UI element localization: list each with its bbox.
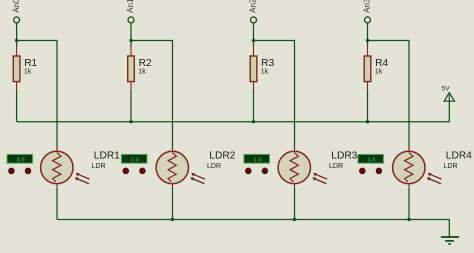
LDR4 adjust buttons	[359, 168, 381, 174]
node bus junction	[366, 120, 369, 123]
LDR3 value display "1.0"	[244, 154, 270, 163]
LDR2 adjust buttons	[123, 168, 145, 174]
wire	[17, 41, 57, 148]
node bus junction	[129, 120, 132, 123]
wire	[368, 41, 410, 148]
terminal An0	[12, 0, 21, 23]
resistor R3	[250, 46, 274, 91]
svg-text:R2: R2	[139, 58, 152, 69]
svg-text:LDR4: LDR4	[446, 151, 472, 162]
svg-text:1.0: 1.0	[131, 157, 139, 163]
wire	[408, 188, 410, 220]
wire	[172, 188, 174, 220]
svg-text:1k: 1k	[24, 69, 32, 76]
LDR1 (photoresistor)	[41, 147, 121, 188]
resistor R2	[128, 46, 152, 91]
wire	[16, 91, 18, 122]
svg-text:1.0: 1.0	[368, 157, 376, 163]
wire	[253, 41, 255, 47]
node ground bus junction	[293, 218, 296, 221]
resistor R1	[13, 46, 37, 91]
wire	[16, 23, 18, 41]
LDR1 value display "1.0"	[7, 154, 33, 163]
terminal An3	[363, 0, 372, 23]
node junction An2	[252, 39, 255, 42]
wire	[294, 188, 296, 220]
node ground bus junction	[171, 218, 174, 221]
svg-text:LDR: LDR	[329, 163, 343, 170]
node ground bus junction	[407, 218, 410, 221]
node bus junction	[252, 120, 255, 123]
resistor R4	[364, 46, 388, 91]
LDR1 adjust buttons	[9, 168, 31, 174]
svg-text:An1: An1	[126, 0, 135, 13]
svg-text:LDR1: LDR1	[94, 151, 120, 162]
terminal An1	[126, 0, 135, 23]
LDR2 (photoresistor)	[156, 147, 236, 188]
svg-text:1.0: 1.0	[17, 157, 25, 163]
terminal An2	[249, 0, 258, 23]
wire	[254, 41, 295, 148]
svg-text:5V: 5V	[442, 85, 451, 92]
LDR3 (photoresistor)	[278, 147, 358, 188]
svg-text:LDR: LDR	[444, 163, 458, 170]
ground	[441, 237, 459, 245]
wire	[367, 23, 369, 41]
svg-text:R1: R1	[24, 58, 37, 69]
wire	[367, 41, 369, 47]
wire	[130, 41, 132, 47]
node junction An3	[366, 39, 369, 42]
wire ground bus	[57, 220, 449, 237]
svg-text:An0: An0	[12, 0, 21, 13]
svg-text:An3: An3	[363, 0, 372, 13]
wire	[130, 91, 132, 122]
svg-text:LDR2: LDR2	[209, 151, 235, 162]
svg-text:LDR: LDR	[92, 163, 106, 170]
wire 5V bus	[17, 94, 450, 122]
svg-text:An2: An2	[249, 0, 258, 13]
node junction An1	[129, 39, 132, 42]
svg-text:1k: 1k	[138, 69, 146, 76]
LDR3 adjust buttons	[245, 168, 267, 174]
svg-text:LDR: LDR	[207, 163, 221, 170]
svg-text:LDR3: LDR3	[331, 151, 357, 162]
svg-text:1k: 1k	[375, 69, 383, 76]
node junction An0	[15, 39, 18, 42]
wire	[253, 91, 255, 122]
power 5V	[442, 85, 455, 101]
wire	[16, 41, 18, 47]
wire	[367, 91, 369, 122]
LDR2 value display "1.0"	[121, 154, 147, 163]
wire	[56, 188, 58, 220]
LDR4 value display "1.0"	[358, 154, 384, 163]
svg-text:R4: R4	[375, 58, 388, 69]
wire	[131, 41, 173, 148]
svg-text:R3: R3	[261, 58, 274, 69]
svg-text:1k: 1k	[261, 69, 269, 76]
wire	[130, 23, 132, 41]
svg-text:1.0: 1.0	[254, 157, 262, 163]
wire	[253, 23, 255, 41]
LDR4 (photoresistor)	[393, 147, 473, 188]
